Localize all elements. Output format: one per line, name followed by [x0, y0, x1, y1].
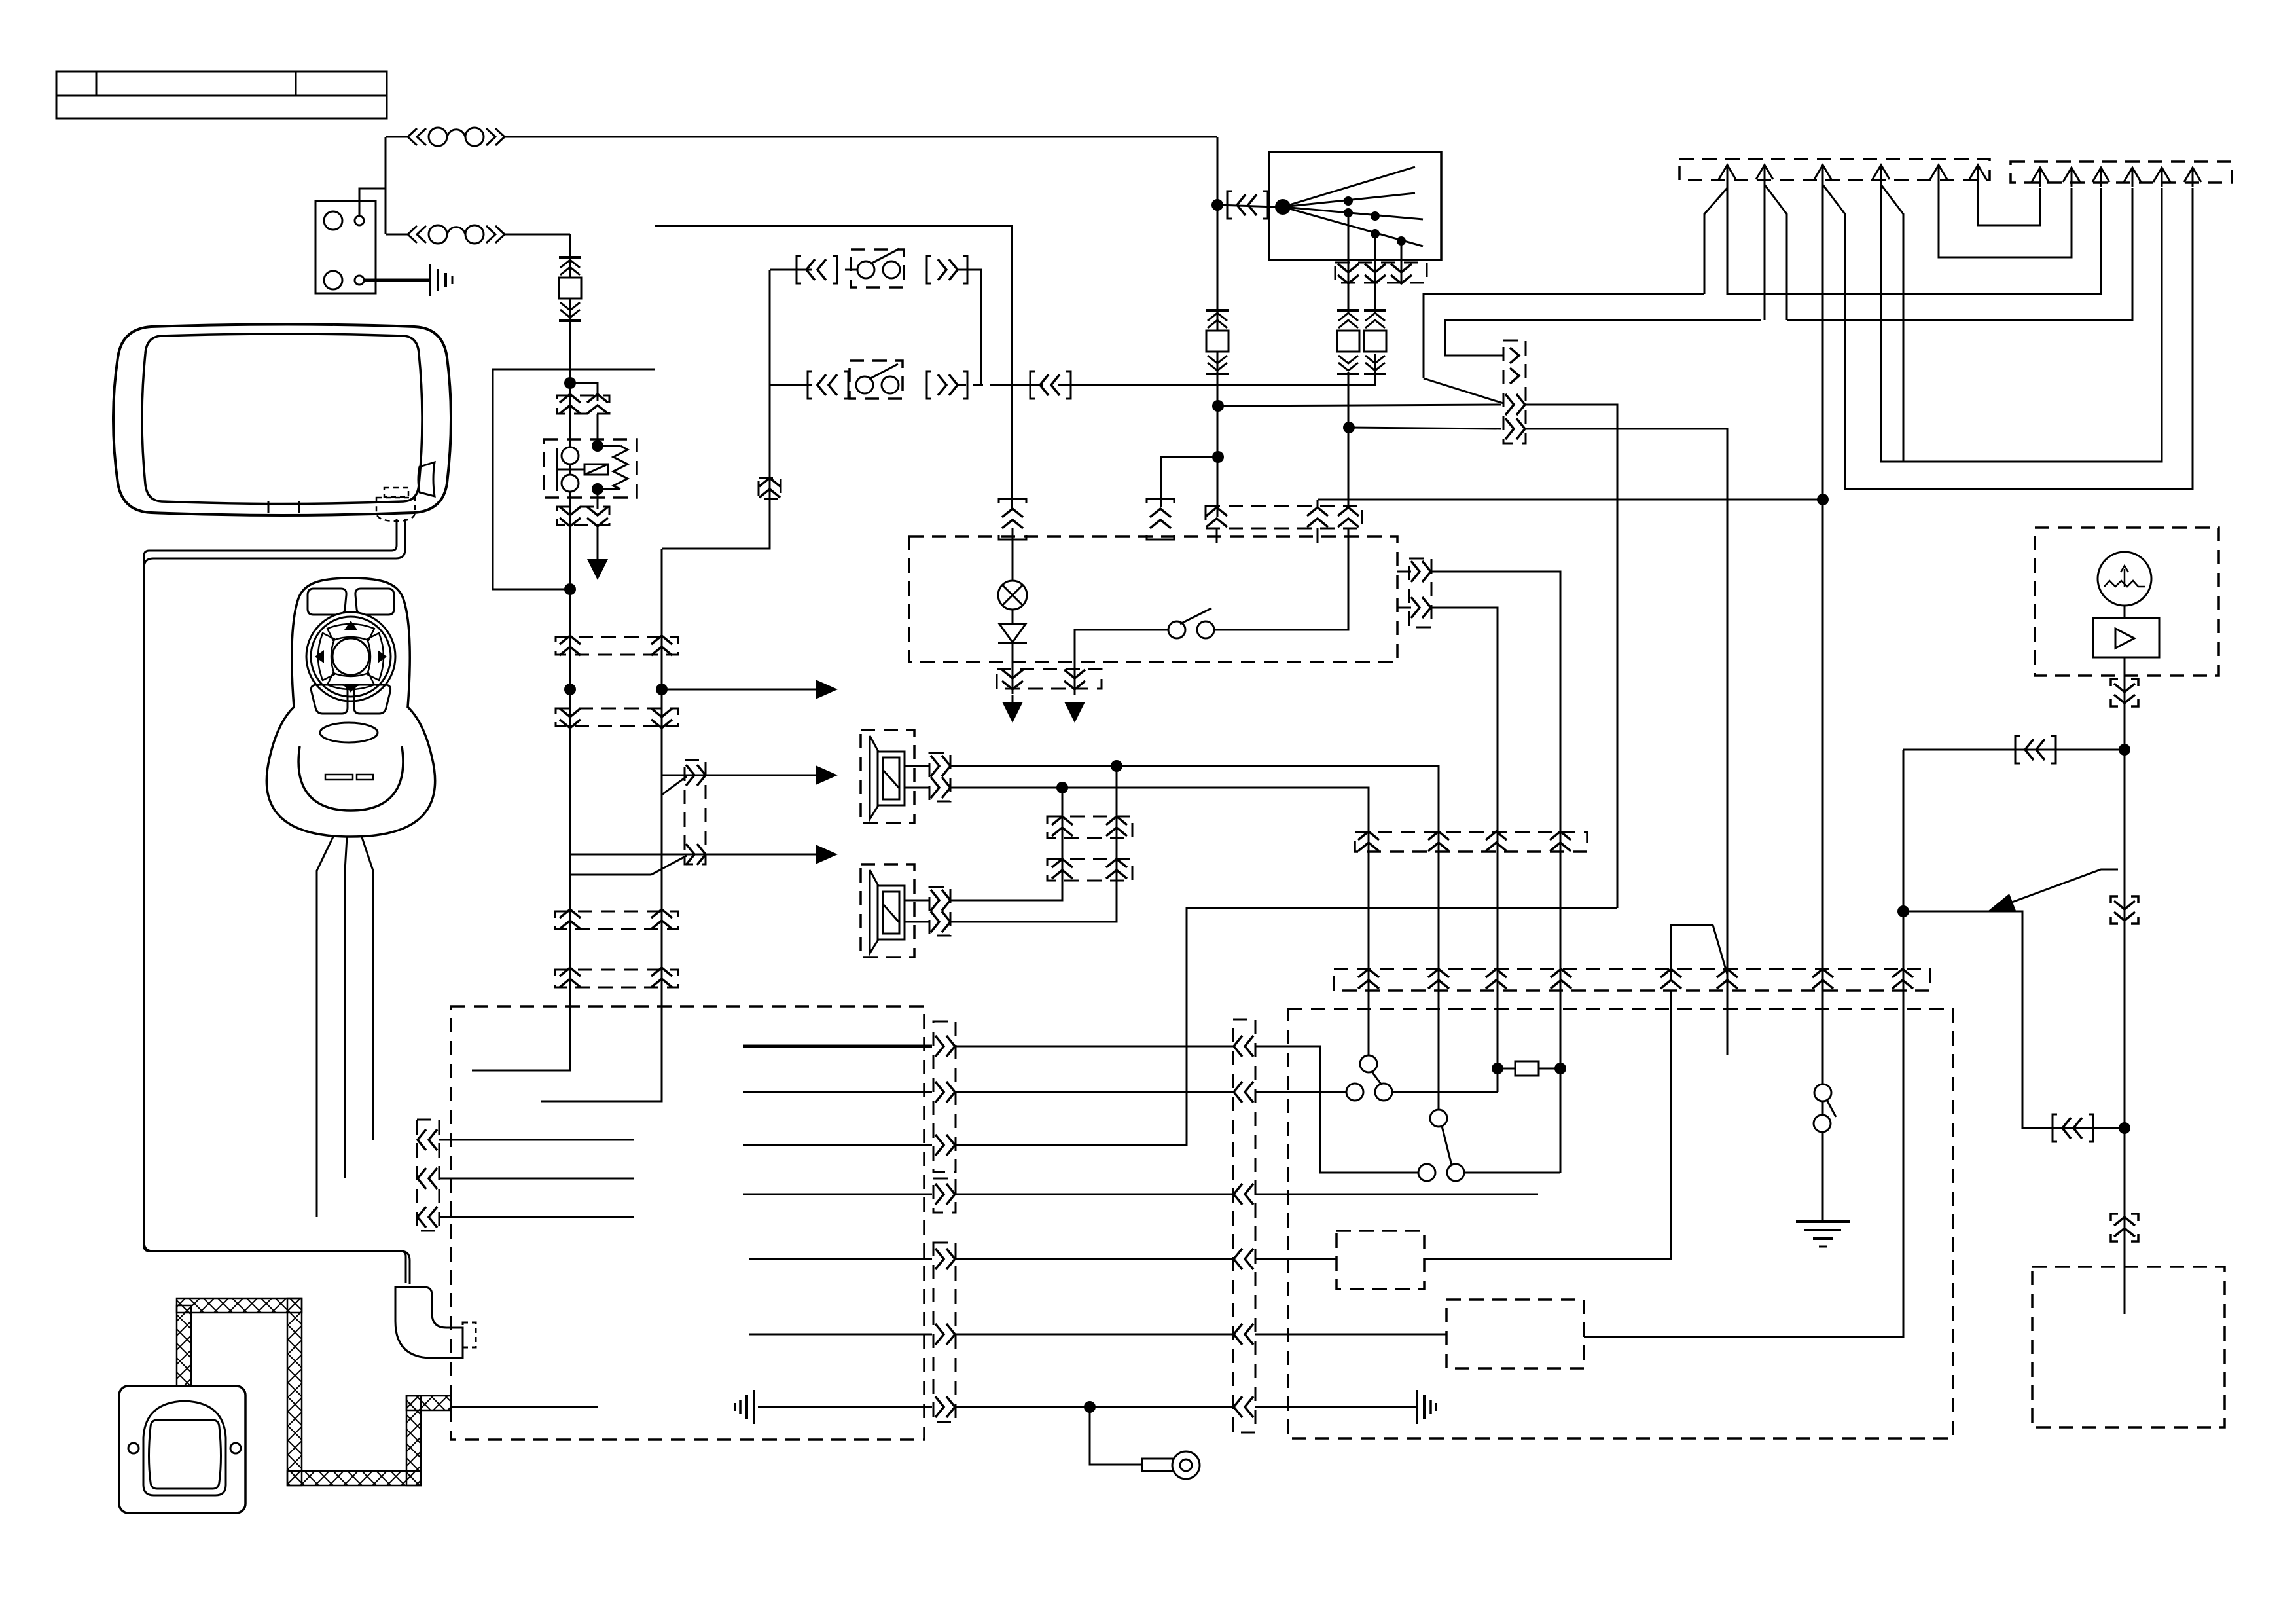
connector strip A	[1355, 832, 1587, 852]
node dot 871-900	[564, 583, 576, 595]
remote petal left	[318, 633, 334, 680]
HU conn box R1	[933, 1021, 956, 1172]
relay resistor zigzag	[613, 446, 628, 489]
connector S1 left	[806, 259, 826, 280]
wire jog 543	[1445, 320, 1761, 356]
SP2 pin + r	[931, 890, 950, 911]
fanout dot r4b	[1397, 236, 1406, 246]
pin 1623 u2	[1052, 859, 1073, 879]
strip B pin 2639	[1717, 969, 1738, 989]
switch SW3 contact R	[1197, 621, 1214, 638]
wire 698 branch	[1161, 457, 1218, 507]
HU pin L2	[418, 1168, 437, 1189]
speaker SP1 box	[861, 730, 914, 823]
remote dpad center	[332, 638, 369, 675]
relay armature bar	[556, 448, 558, 491]
box2 arrow 4 head	[2124, 168, 2141, 182]
node dot 1011-1053	[656, 684, 668, 695]
antenna amp triangle	[2115, 629, 2134, 648]
fanout hub dot	[1275, 199, 1291, 215]
fuse F5 on 2060	[1337, 310, 1359, 374]
wire out 655	[1526, 429, 1727, 991]
strip B pin 2286	[1486, 969, 1507, 989]
fanout dot r3b	[1371, 211, 1380, 221]
strip A pin 2198	[1428, 831, 1449, 851]
pin 1011 strip1 up	[651, 636, 672, 655]
node dot 871-1053	[564, 684, 576, 695]
fanout pin3 down	[1391, 264, 1412, 283]
wire 763 link	[1318, 499, 1823, 501]
ground G1	[430, 264, 452, 296]
pin 871 strip2 down	[560, 708, 581, 728]
amp pin row 1598	[1234, 1036, 1253, 1057]
box1 arrow 3 shaft	[1822, 165, 1824, 185]
box1 arrow 1 shaft	[1727, 165, 1729, 185]
remote btn BL	[311, 685, 348, 714]
wire vertical 871 lower	[569, 875, 571, 1070]
speaker SP2 coil	[883, 892, 899, 934]
wire S1 feed	[770, 269, 812, 271]
node dot 1665-2149	[1084, 1401, 1096, 1413]
title block divider row	[56, 95, 387, 97]
relay bar link	[557, 469, 584, 471]
conn row lamp bottom	[997, 669, 1102, 689]
camera hole L	[128, 1443, 139, 1453]
fuse F1 inline	[408, 128, 505, 146]
arrow right C	[816, 845, 838, 864]
resistor R1 lead r	[1539, 1068, 1560, 1070]
strip B pin 2091	[1358, 969, 1379, 989]
wire out 618	[1526, 405, 1617, 908]
wire 620 to conn	[1218, 405, 1501, 406]
amp conn column	[1233, 1019, 1255, 1432]
HU pin row 1749	[935, 1135, 955, 1156]
HU ground G2	[735, 1390, 754, 1424]
wire 653 to conn	[1349, 428, 1501, 429]
battery pin lower	[355, 276, 364, 285]
wire arrow3 shaft long	[1822, 185, 1824, 1222]
node dot 3246-1723	[2119, 1122, 2130, 1134]
wire vertical 1860	[1217, 137, 1219, 517]
conn strip spk upper	[1047, 816, 1132, 838]
node dot 2288-1632	[1492, 1063, 1503, 1074]
wire SP1- run	[950, 788, 1369, 1055]
elbow connector	[395, 1287, 463, 1358]
connector row below relay	[557, 507, 609, 525]
speaker SP2 magnet	[878, 886, 905, 939]
monitor tick2	[298, 501, 300, 513]
wire opt2 out	[1584, 750, 1903, 1337]
ground G4 earth	[1796, 1222, 1850, 1247]
SP2 wire -	[905, 921, 929, 923]
wire row5 head-amp	[956, 1258, 1233, 1260]
wire diode down	[1012, 643, 1014, 694]
remote dash2	[357, 775, 373, 780]
wire vertical 1011	[661, 549, 663, 1101]
monitor tick1	[268, 501, 270, 513]
HU pin row 2149	[935, 1396, 955, 1417]
conn strip HU top1	[555, 911, 678, 929]
node dot 871-585	[564, 377, 576, 389]
wire lamp feed	[1012, 528, 1014, 581]
speaker SP1 coil diag	[883, 770, 899, 788]
box2 arrow 1 head	[2032, 168, 2049, 182]
camera plate	[119, 1386, 245, 1513]
wire arrow C feed	[570, 854, 816, 856]
HU left wire1	[439, 1139, 634, 1141]
switch SW5 lever	[1442, 1126, 1452, 1165]
arrow down sw3	[1064, 702, 1085, 723]
pin 871 hu1	[560, 909, 581, 929]
wire corner 1011-top	[662, 270, 770, 549]
diag join B	[662, 776, 687, 795]
remote tri down	[344, 684, 357, 693]
monitor conn dashed	[376, 498, 415, 521]
connector S2 left	[817, 374, 837, 395]
HU pin row 1824	[935, 1184, 955, 1205]
remote wire M	[345, 837, 347, 1178]
HU left wire2	[439, 1178, 634, 1180]
pin 2300-618 right	[1505, 394, 1525, 415]
diode D1	[999, 624, 1026, 642]
HU pin row 2038	[935, 1324, 955, 1345]
conn 3246 b	[2114, 901, 2135, 921]
switch SW3 contact L	[1168, 621, 1185, 638]
wire opt1 out	[1424, 991, 1671, 1259]
dashed segment 1176	[769, 346, 771, 382]
pin 1706 u2	[1106, 859, 1127, 879]
battery terminal big lower	[324, 271, 342, 289]
relay wire coil-out	[598, 489, 620, 509]
connector strip B	[1334, 969, 1930, 991]
HU stub wire 1011	[541, 1006, 662, 1101]
shield cable seg2	[177, 1298, 302, 1313]
wire arrow4 diag	[1881, 185, 1903, 462]
wire S2 out solid	[995, 384, 1043, 386]
wire R1 to 2384	[1431, 572, 1560, 1173]
switch S1 contact L	[857, 261, 874, 278]
conn 2060 top	[1338, 507, 1359, 527]
box1 arrow 2 shaft	[1764, 165, 1766, 185]
relay node upper	[592, 440, 603, 452]
harness box 2	[2011, 162, 2232, 183]
arrow right A	[816, 680, 838, 699]
wire U outer	[1939, 185, 2072, 257]
wire 2060 down	[1348, 372, 1350, 508]
wire ring terminal	[1090, 1407, 1142, 1465]
box2 arrow 5 head	[2153, 168, 2170, 182]
pin lampbox R2	[1411, 597, 1431, 618]
connector on wire 1176	[759, 478, 781, 499]
speaker SP1 horn v	[869, 736, 871, 819]
connector pin 871 down	[560, 507, 581, 526]
switch SW5 contact R	[1447, 1164, 1464, 1181]
resistor R1	[1515, 1061, 1539, 1076]
wire jog 618	[1424, 294, 1704, 378]
fanout drop1	[1348, 213, 1350, 311]
speaker SP2 horn	[870, 870, 878, 953]
wire 1145 left	[1903, 749, 2125, 751]
speaker SP2 coil diag	[883, 904, 899, 922]
box1 arrow 5 head	[1930, 165, 1947, 179]
antenna circle	[2098, 552, 2151, 606]
amp pin row 2038	[1234, 1324, 1253, 1345]
relay K1 box	[544, 439, 637, 498]
connector pin 913 up	[587, 394, 608, 414]
conn 3246 a	[2114, 684, 2135, 703]
strip B pin 2907	[1892, 969, 1913, 989]
box1 arrow 4 head	[1873, 165, 1890, 179]
wire arrow B feed	[662, 775, 816, 776]
remote wire L	[317, 835, 334, 1217]
node dot 3246-1145	[2119, 744, 2130, 756]
conn 1547 top	[1002, 509, 1023, 528]
SP1 wire +	[905, 765, 929, 767]
box1 arrow 6 head	[1969, 165, 1986, 179]
wire row3 head-amp	[956, 908, 1617, 1145]
conn 1859 top	[1206, 507, 1227, 527]
wire S2 feed	[770, 384, 812, 386]
conn strip HU top2	[555, 970, 678, 987]
HU wire R5	[749, 1258, 932, 1260]
battery terminal big upper	[324, 211, 342, 230]
diag join C	[651, 856, 687, 875]
fanout pin2 down	[1365, 264, 1386, 283]
wire SW5 out	[1464, 1172, 1560, 1174]
shield cable seg1	[177, 1305, 191, 1386]
HU wire R4	[743, 1194, 932, 1195]
node dot 1860-313	[1211, 199, 1223, 211]
title block divider v2	[295, 71, 297, 96]
box1 arrow 5 shaft	[1938, 165, 1940, 185]
box2 arrow 2 shaft	[2071, 168, 2073, 187]
relay coil box	[584, 464, 608, 475]
SP1 wire -	[905, 787, 929, 789]
wire fuse1 feed	[386, 136, 408, 138]
connector S2 right	[938, 374, 958, 395]
speaker SP1 horn	[870, 736, 878, 819]
lamp L1	[998, 581, 1027, 610]
switch SW3 out	[1214, 528, 1348, 630]
switch SW6 lever	[1827, 1100, 1836, 1117]
remote body	[266, 578, 435, 837]
stub 2013 into box	[1317, 528, 1319, 543]
fanout ray2	[1283, 193, 1415, 207]
monitor cable	[144, 519, 406, 1283]
HU stub wire 871	[472, 1006, 570, 1070]
box1 arrow 3 head	[1814, 165, 1831, 179]
connector pin 913 down	[587, 507, 608, 526]
wire jumper diag	[1713, 925, 1727, 974]
pin lampbox R1	[1411, 561, 1431, 582]
pin 2300-543	[1510, 348, 1519, 363]
camera hole R	[230, 1443, 241, 1453]
connector mid588 left	[1040, 374, 1060, 395]
switch S1 box	[851, 249, 904, 287]
box2 arrow 2 head	[2063, 168, 2080, 182]
monitor latch	[418, 462, 435, 496]
pin 1706 u1	[1106, 816, 1127, 836]
wire 1392 branch	[1903, 911, 2120, 1128]
wire ACC to lamp	[1011, 385, 1013, 509]
wire SW4 out	[1392, 1091, 1498, 1093]
pin 2300-655 right	[1505, 418, 1525, 439]
HU pin row 1923	[935, 1249, 955, 1269]
HU wire R6	[749, 1334, 932, 1336]
antenna out wire	[2124, 657, 2126, 750]
wire fuse2 out	[505, 234, 570, 236]
camera bezel	[143, 1401, 226, 1495]
HU pin L1	[418, 1129, 437, 1150]
box2 arrow 6 head	[2184, 168, 2201, 182]
fanout ray4	[1283, 207, 1423, 246]
interior lamp unit box	[909, 536, 1397, 662]
connector fanout left	[1237, 194, 1257, 215]
wire jumper B5	[1671, 925, 1713, 979]
box1 arrow 1 head	[1719, 165, 1736, 179]
monitor body	[113, 325, 451, 516]
switch S2 contact L	[856, 376, 873, 393]
box2 arrow 3 head	[2092, 168, 2109, 182]
fuse F6 on 2101	[1364, 310, 1386, 374]
connector strip A2	[556, 708, 678, 726]
remote dpad outer	[306, 612, 395, 701]
annotation arrow	[2012, 869, 2118, 902]
remote tri right	[378, 650, 387, 663]
conn 3110 on 1145	[2025, 739, 2045, 760]
HU wire R2	[743, 1091, 932, 1093]
conn 3167 on 1723	[2062, 1118, 2082, 1139]
conn pair lampbox right	[1409, 558, 1431, 627]
wire S1 mid	[845, 269, 857, 271]
remote btn TR	[355, 589, 394, 615]
wire arrow1 riser diag	[1704, 188, 1727, 294]
pin 1011 hu1	[651, 909, 672, 929]
arrow down lamp	[1002, 702, 1023, 723]
switch SW5 pivot	[1430, 1110, 1447, 1127]
conn strip lamp top	[1206, 506, 1362, 528]
fanout dot r4a	[1371, 229, 1380, 238]
box2 arrow 6 shaft	[2192, 168, 2194, 187]
pin 1176	[759, 478, 780, 498]
battery pin upper	[355, 216, 364, 225]
shield cable seg6	[406, 1396, 451, 1410]
fanout dot r3a	[1344, 208, 1353, 217]
remote btn BR	[354, 685, 391, 714]
wire U inner	[1978, 185, 2040, 225]
SP2 pin - r	[931, 911, 950, 932]
lamp box stub R2	[1397, 607, 1411, 609]
switch S1 lever	[870, 249, 899, 264]
conn 3246 c	[2114, 1217, 2135, 1237]
conn 1642 bottom	[1064, 670, 1085, 689]
wire 3246 down	[2124, 750, 2126, 1314]
connector column mid	[685, 760, 706, 864]
stub 1859 into box	[1216, 528, 1218, 543]
strip B pin 2553	[1660, 969, 1681, 989]
harness box 1	[1679, 159, 1990, 180]
fanout pin1 down	[1338, 264, 1359, 283]
wire arrow A feed	[662, 689, 816, 691]
node dot 1623-1203	[1056, 782, 1068, 793]
fanout dot r2	[1344, 196, 1353, 206]
relay contact lower	[562, 475, 579, 492]
box1 arrow 6 shaft	[1977, 165, 1979, 185]
switch SW4 contact L	[1346, 1084, 1363, 1101]
switch SW6 contact T	[1814, 1084, 1831, 1101]
option box 1	[1336, 1231, 1424, 1289]
connector S1 right	[938, 259, 958, 280]
fanout box	[1269, 152, 1441, 260]
fanout ray1	[1283, 167, 1415, 207]
title block frame	[56, 71, 387, 119]
wire 2013 riser	[1317, 500, 1319, 507]
pin mid lower right	[686, 844, 706, 865]
antenna arrow	[2121, 566, 2128, 587]
strip A pin 2286	[1486, 831, 1507, 851]
node dot 2785-763	[1817, 494, 1829, 505]
amp pin row 1923	[1234, 1249, 1253, 1269]
wire row4 head-amp	[956, 1194, 1233, 1195]
remote petal right	[367, 633, 384, 680]
pin mid upper right	[686, 765, 706, 786]
shield cable seg5	[406, 1396, 421, 1486]
remote tri up	[344, 621, 357, 630]
fuse F2 inline	[408, 225, 505, 244]
switch S2 box	[850, 361, 903, 399]
wire fuse vertical link	[385, 137, 387, 234]
antenna amp link	[2124, 606, 2126, 618]
switch S2 lever	[869, 364, 898, 379]
fanout pin strip	[1335, 263, 1427, 283]
amp pin row 2149	[1234, 1396, 1253, 1417]
speaker SP1 coil	[883, 757, 899, 799]
pin 1623 u1	[1052, 816, 1073, 836]
wire stub B6	[1727, 991, 1729, 1055]
speaker SP2 horn v	[869, 870, 871, 953]
connector row above relay	[557, 395, 609, 414]
pin 1011 hu2	[651, 968, 672, 987]
relay node lower	[592, 483, 603, 495]
wire F2 bottom route	[493, 369, 655, 589]
wire S1 out	[956, 270, 981, 385]
title block divider v1	[96, 71, 98, 96]
relay contact upper	[562, 447, 579, 464]
remote inner chin	[298, 746, 403, 811]
remote tri left	[315, 650, 324, 663]
switch SW3 wire left	[1075, 630, 1168, 695]
elbow plug dashed	[463, 1322, 476, 1347]
amp pin row 1824	[1234, 1184, 1253, 1205]
switch SW4 lever	[1372, 1072, 1382, 1085]
wire fuse1 to bus	[505, 136, 1217, 138]
HU conn box R3	[933, 1243, 956, 1422]
wire arrow3 diag	[1823, 185, 2193, 489]
wire R2 to 2288	[1431, 608, 1498, 1092]
wire SP1+ run	[950, 766, 1439, 1110]
wire fuse2 feed	[386, 234, 408, 236]
arrow down relay	[587, 559, 608, 580]
wire relay out arrow	[597, 526, 599, 560]
box2 arrow 5 shaft	[2161, 168, 2163, 187]
HU ground wire	[451, 1406, 598, 1408]
battery connector J1 box	[315, 201, 376, 293]
fanout ray3	[1283, 207, 1423, 219]
strip B pin 2785	[1812, 969, 1833, 989]
connector pin 871 up	[560, 394, 581, 414]
HU conn box R2	[933, 1178, 956, 1213]
wire arrow2 diag run	[1765, 185, 1787, 320]
